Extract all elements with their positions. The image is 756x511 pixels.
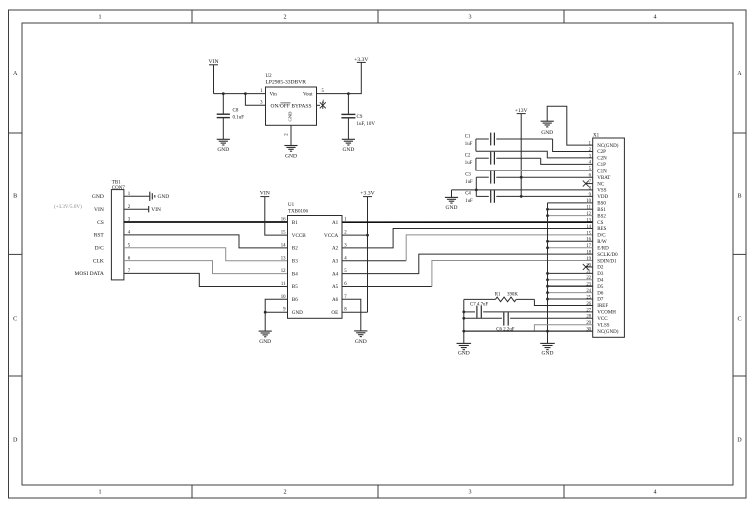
op-amp U2 LP2985-33DBVR regulator bbox=[266, 74, 317, 125]
wire X1 pin10 BS0 stub bbox=[548, 202, 593, 204]
svg-text:18: 18 bbox=[586, 251, 591, 256]
junction at C9 top bbox=[347, 92, 350, 95]
U1 pin number 12 bbox=[281, 269, 286, 274]
X1 pin number 13 bbox=[586, 218, 591, 223]
svg-text:VIN: VIN bbox=[94, 207, 104, 213]
node CS label (TB1 pin 3) bbox=[97, 220, 104, 226]
junction bus pin21 bbox=[546, 272, 549, 275]
svg-text:2: 2 bbox=[283, 15, 286, 21]
junction bus pin24 bbox=[546, 291, 549, 294]
node CLK label (TB1 pin 6) bbox=[93, 258, 104, 264]
svg-text:28: 28 bbox=[586, 315, 591, 320]
svg-text:RST: RST bbox=[94, 233, 105, 239]
ground under C8 bbox=[217, 139, 230, 153]
svg-text:D4: D4 bbox=[597, 278, 604, 283]
svg-text:NC: NC bbox=[597, 182, 605, 187]
TB1 pin number 7 bbox=[128, 269, 131, 274]
U1 pin number 8 bbox=[344, 308, 347, 313]
junction bus pin22 bbox=[546, 278, 549, 281]
wire U1 A6 to ground bbox=[342, 299, 361, 331]
svg-text:IREF: IREF bbox=[597, 304, 608, 309]
TB1 pin number 2 bbox=[128, 205, 131, 210]
power symbol VIN (regulator input) bbox=[208, 59, 218, 93]
U1 pin number 15 bbox=[281, 231, 286, 236]
U1 pin number 14 bbox=[281, 243, 286, 248]
X1 pin label IREF (pin 26) bbox=[597, 304, 608, 309]
X1 pin label VCC (pin 28) bbox=[597, 317, 608, 322]
svg-text:CS: CS bbox=[97, 220, 104, 226]
svg-text:D7: D7 bbox=[597, 298, 604, 303]
svg-text:2: 2 bbox=[283, 490, 286, 496]
svg-text:Vin: Vin bbox=[270, 91, 278, 97]
U1 pin number 1 bbox=[344, 218, 347, 223]
connector TB1 CON7 bbox=[111, 180, 125, 280]
svg-text:C2P: C2P bbox=[597, 150, 606, 155]
svg-text:BS0: BS0 bbox=[597, 202, 606, 207]
U1 right pin label A5 bbox=[332, 284, 339, 290]
X1 pin label VBAT (pin 6) bbox=[597, 176, 610, 181]
X1 pin label CS (pin 13) bbox=[597, 221, 603, 226]
TB1 pin number 1 bbox=[128, 192, 131, 197]
junction VCCA/+3.3V bbox=[366, 234, 369, 237]
svg-text:MOSI DATA: MOSI DATA bbox=[74, 271, 103, 277]
X1 pin number 30 bbox=[586, 328, 591, 333]
U1 left pin label B5 bbox=[292, 284, 298, 290]
U1 right pin label A4 bbox=[332, 271, 339, 277]
node VIN label (TB1 pin 2) bbox=[94, 207, 104, 213]
resistor R1 390K bbox=[464, 292, 535, 301]
X1 pin number 15 bbox=[586, 231, 591, 236]
svg-text:GND: GND bbox=[446, 205, 458, 211]
ground (rotated) at TB1 pin1 bbox=[150, 192, 169, 201]
X1 pin label VDD (pin 9) bbox=[597, 195, 608, 200]
U1 right pin label VCCA bbox=[324, 233, 338, 239]
svg-text:1: 1 bbox=[98, 15, 101, 21]
svg-text:C3: C3 bbox=[465, 172, 471, 177]
X1 pin number 19 bbox=[586, 257, 591, 262]
ground at bus bottom bbox=[540, 343, 555, 356]
svg-text:B: B bbox=[13, 194, 17, 200]
svg-text:VIN: VIN bbox=[208, 59, 218, 65]
U1 left pin label VCCB bbox=[292, 233, 306, 239]
junction bus pin12 bbox=[546, 214, 549, 217]
X1 pin label BS1 (pin 11) bbox=[597, 208, 606, 213]
X1 pin number 18 bbox=[586, 251, 591, 256]
wire left GND vertical (R1/C7/C6 return) bbox=[463, 300, 465, 344]
svg-text:1uF: 1uF bbox=[465, 142, 473, 147]
junction bus pin23 bbox=[546, 285, 549, 288]
wire GND bus vertical bbox=[547, 203, 549, 344]
U1 pin number 7 bbox=[344, 295, 347, 300]
svg-text:A2: A2 bbox=[332, 246, 339, 252]
wire U2 pin5 to +3.3V bbox=[317, 62, 362, 93]
X1 pin number 12 bbox=[586, 212, 591, 217]
X1 pin number 26 bbox=[586, 302, 591, 307]
wire C2 left to C1N row bbox=[475, 158, 477, 170]
capacitor C6 2.2uF (VCC) bbox=[464, 312, 593, 332]
junction at pin3 branch bbox=[244, 92, 247, 95]
svg-text:NC(GND): NC(GND) bbox=[597, 330, 618, 335]
svg-text:GND: GND bbox=[287, 111, 292, 122]
svg-text:D2: D2 bbox=[597, 266, 604, 271]
svg-text:GND: GND bbox=[355, 339, 367, 345]
svg-text:D/C: D/C bbox=[597, 234, 606, 239]
node D/C label (TB1 pin 5) bbox=[95, 246, 105, 252]
svg-text:D5: D5 bbox=[597, 285, 604, 290]
junction at C8 top bbox=[222, 92, 225, 95]
junction C7/GND vertical bbox=[462, 311, 465, 314]
X1 pin number 20 bbox=[586, 263, 591, 268]
svg-text:VLSS: VLSS bbox=[597, 323, 609, 328]
svg-text:BS1: BS1 bbox=[597, 208, 606, 213]
svg-text:+3.3V: +3.3V bbox=[360, 191, 375, 197]
svg-text:15: 15 bbox=[586, 231, 591, 236]
TB1 pin number 5 bbox=[128, 243, 131, 248]
wire D/C TB1 pin5 to U1 B3 bbox=[124, 248, 288, 261]
X1 pin label C1P (pin 4) bbox=[597, 163, 606, 168]
wire CLK TB1 pin6 to U1 B4 bbox=[124, 261, 288, 274]
X1 pin number 6 bbox=[589, 174, 592, 179]
X1 pin label D/C (pin 15) bbox=[597, 234, 606, 239]
U1 pin number 16 bbox=[281, 218, 286, 223]
capacitor C7 4.7uF (VCOMH) bbox=[464, 303, 593, 318]
wire to ground below U1 bbox=[264, 312, 266, 331]
X1 pin label NC(GND) (pin 30) bbox=[597, 330, 618, 335]
svg-text:D6: D6 bbox=[597, 291, 604, 296]
wire SDIN U1 A5 to X1 pin19 bbox=[342, 261, 593, 287]
X1 pin number 4 bbox=[589, 161, 592, 166]
U1 right pin label OE bbox=[331, 310, 338, 316]
X1 pin label BS2 (pin 12) bbox=[597, 214, 606, 219]
junction pin30 left bbox=[462, 330, 465, 333]
wire MOSI TB1 pin7 to U1 B5 bbox=[124, 273, 288, 286]
X1 pin label D4 (pin 22) bbox=[597, 278, 604, 283]
svg-text:16: 16 bbox=[281, 218, 286, 223]
wire NC(GND) row X1 pin30 bbox=[464, 330, 593, 332]
svg-text:16: 16 bbox=[586, 238, 591, 243]
U1 left pin label B4 bbox=[292, 271, 298, 277]
wire CS U1 A1 to X1 pin13 bbox=[342, 221, 593, 223]
TB1 pin number 4 bbox=[128, 231, 131, 236]
capacitor C9 1uF 10V bbox=[341, 94, 375, 140]
wire C2 right to X1 pin4 C1P bbox=[541, 158, 593, 164]
svg-text:SDIN/D1: SDIN/D1 bbox=[597, 259, 617, 264]
ground under U1 left bbox=[259, 331, 272, 345]
svg-text:10: 10 bbox=[586, 199, 591, 204]
X1 pin number 9 bbox=[589, 193, 592, 198]
wire U1 GND pin9 bbox=[265, 311, 287, 313]
svg-text:VCC: VCC bbox=[597, 317, 608, 322]
capacitor C1 1uF bbox=[465, 133, 553, 147]
svg-text:OE: OE bbox=[331, 310, 338, 316]
junction B6/GND bbox=[264, 311, 267, 314]
X1 pin number 7 bbox=[589, 180, 592, 185]
svg-text:GND: GND bbox=[158, 194, 170, 200]
wire TB1 pin2 to VIN bbox=[124, 208, 148, 210]
wire VIN to U2 pin1 bbox=[214, 93, 266, 95]
wire RST TB1 pin4 to U1 B2 bbox=[124, 235, 288, 248]
wire +13V to VBAT and VDD bbox=[520, 114, 522, 197]
U2 pin number 2 bbox=[284, 133, 289, 136]
ground under U1 A6 bbox=[354, 331, 367, 345]
net label (+3.3V/5.0V) bbox=[54, 203, 82, 210]
svg-text:B: B bbox=[737, 194, 741, 200]
X1 pin label NC(GND) (pin 1) bbox=[597, 144, 618, 149]
svg-text:C2: C2 bbox=[465, 154, 471, 159]
X1 pin number 22 bbox=[586, 276, 591, 281]
ground under C9 bbox=[342, 139, 355, 153]
U2 pin number 3 bbox=[260, 101, 263, 106]
wire SCLK U1 A4 to X1 pin18 bbox=[342, 254, 593, 274]
wire X1 pin23 stub to GND bus bbox=[548, 285, 593, 287]
X1 pin label D5 (pin 23) bbox=[597, 285, 604, 290]
svg-text:+13V: +13V bbox=[515, 108, 528, 114]
U1 pin number 9 bbox=[283, 308, 286, 313]
svg-text:3: 3 bbox=[468, 490, 471, 496]
wire X1 pin24 stub to GND bus bbox=[548, 292, 593, 294]
X1 pin label D7 (pin 25) bbox=[597, 298, 604, 303]
X1 pin number 2 bbox=[589, 148, 592, 153]
ground at VSS bbox=[445, 197, 458, 211]
wire R1 to X1 pin26 IREF bbox=[534, 299, 592, 305]
svg-text:GND: GND bbox=[458, 351, 470, 357]
X1 pin number 16 bbox=[586, 238, 591, 243]
svg-text:CS: CS bbox=[597, 221, 603, 226]
wire X1 pin22 stub to GND bus bbox=[548, 279, 593, 281]
U1 left pin label B6 bbox=[292, 297, 298, 303]
svg-text:VBAT: VBAT bbox=[597, 176, 610, 181]
no-connect X1 pin20 bbox=[583, 264, 593, 270]
power symbol VIN above U1 bbox=[260, 191, 270, 197]
capacitor C2 1uF bbox=[465, 152, 541, 166]
svg-text:R1: R1 bbox=[495, 292, 501, 297]
svg-text:B2: B2 bbox=[292, 246, 298, 252]
svg-text:390K: 390K bbox=[507, 292, 518, 297]
svg-text:E/RD: E/RD bbox=[597, 246, 609, 251]
svg-text:14: 14 bbox=[586, 225, 591, 230]
wire cap return vertical C3/C4 bbox=[475, 177, 477, 196]
junction bus pin16 bbox=[546, 240, 549, 243]
svg-text:22: 22 bbox=[586, 276, 591, 281]
ground at left return bbox=[457, 343, 472, 356]
X1 pin number 1 bbox=[589, 142, 592, 147]
wire VLSS X1 pin29 bbox=[534, 325, 592, 331]
power symbol +13V bbox=[515, 108, 528, 114]
svg-text:4: 4 bbox=[653, 15, 656, 21]
svg-text:14: 14 bbox=[281, 243, 286, 248]
junction VSS/cap return bbox=[475, 189, 478, 192]
svg-text:B4: B4 bbox=[292, 271, 298, 277]
svg-text:C1: C1 bbox=[465, 134, 471, 139]
svg-text:B3: B3 bbox=[292, 259, 298, 265]
svg-text:VSS: VSS bbox=[597, 189, 606, 194]
wire U1 B6 to GND pin bbox=[265, 299, 287, 312]
U2 pin number 5 bbox=[322, 89, 325, 94]
X1 pin number 24 bbox=[586, 289, 591, 294]
svg-text:GND: GND bbox=[342, 147, 354, 153]
node GND label (TB1 pin 1) bbox=[92, 194, 104, 200]
svg-text:GND: GND bbox=[259, 339, 271, 345]
power symbol +3.3V (regulator output) bbox=[354, 57, 369, 63]
connector X1 (30-pin OLED) bbox=[593, 133, 625, 337]
svg-text:C4: C4 bbox=[465, 192, 471, 197]
svg-text:C7 4.7uF: C7 4.7uF bbox=[470, 303, 488, 308]
svg-text:C: C bbox=[13, 317, 17, 323]
X1 pin label C2N (pin 3) bbox=[597, 157, 607, 162]
svg-text:B1: B1 bbox=[292, 220, 298, 226]
svg-text:24: 24 bbox=[586, 289, 591, 294]
X1 pin label D6 (pin 24) bbox=[597, 291, 604, 296]
svg-text:27: 27 bbox=[586, 308, 591, 313]
svg-text:D: D bbox=[13, 438, 18, 444]
power symbol +3.3V above U1 bbox=[360, 191, 375, 197]
svg-text:D3: D3 bbox=[597, 272, 604, 277]
U1 pin number 10 bbox=[281, 295, 286, 300]
svg-text:CON7: CON7 bbox=[112, 186, 126, 191]
svg-text:A5: A5 bbox=[332, 284, 339, 290]
capacitor C8 0.1uF bbox=[217, 94, 245, 140]
junction pin30 bus bbox=[546, 330, 549, 333]
X1 pin label D3 (pin 21) bbox=[597, 272, 604, 277]
wire X1 pin12 stub to GND bus bbox=[548, 215, 593, 217]
svg-text:GND: GND bbox=[217, 147, 229, 153]
X1 pin number 29 bbox=[586, 321, 591, 326]
junction bus pin17 bbox=[546, 246, 549, 249]
U2 pin number 4 bbox=[322, 100, 325, 105]
X1 pin number 5 bbox=[589, 167, 592, 172]
svg-text:ON/OFF BYPASS: ON/OFF BYPASS bbox=[271, 105, 312, 110]
wire X1 pin16 stub to GND bus bbox=[548, 240, 593, 242]
X1 pin label C2P (pin 2) bbox=[597, 150, 606, 155]
capacitor C4 1uF (VDD) bbox=[465, 190, 593, 204]
U1 left pin label GND bbox=[292, 310, 303, 316]
svg-text:GND: GND bbox=[541, 130, 553, 136]
svg-text:RES: RES bbox=[597, 227, 606, 232]
X1 pin number 28 bbox=[586, 315, 591, 320]
wire VSS row to X1 pin8 and ground bbox=[452, 190, 593, 198]
svg-text:A1: A1 bbox=[332, 220, 339, 226]
svg-text:1: 1 bbox=[98, 490, 101, 496]
svg-text:D: D bbox=[737, 438, 742, 444]
svg-text:VIN: VIN bbox=[260, 191, 270, 197]
X1 pin number 14 bbox=[586, 225, 591, 230]
svg-text:TB1: TB1 bbox=[112, 180, 121, 185]
capacitor C3 1uF (VBAT) bbox=[465, 171, 593, 185]
wire X1 pin17 stub to GND bus bbox=[548, 247, 593, 249]
U1 left pin label B1 bbox=[292, 220, 298, 226]
svg-text:LP2985-33DBVR: LP2985-33DBVR bbox=[266, 81, 307, 86]
svg-text:GND: GND bbox=[292, 310, 303, 316]
svg-text:25: 25 bbox=[586, 295, 591, 300]
X1 pin label R/W (pin 16) bbox=[597, 240, 607, 245]
svg-text:B6: B6 bbox=[292, 297, 298, 303]
svg-text:15: 15 bbox=[281, 231, 286, 236]
no-connect X on U2 pin4 bbox=[317, 102, 326, 109]
X1 pin number 25 bbox=[586, 295, 591, 300]
wire X1 pin25 stub to GND bus bbox=[548, 298, 593, 300]
svg-text:Vout: Vout bbox=[303, 91, 313, 97]
X1 pin number 27 bbox=[586, 308, 591, 313]
svg-text:3: 3 bbox=[468, 15, 471, 21]
svg-text:0.1uF: 0.1uF bbox=[233, 116, 245, 121]
U1 pin number 3 bbox=[344, 243, 347, 248]
U1 pin number 6 bbox=[344, 282, 347, 287]
U1 pin number 5 bbox=[344, 269, 347, 274]
wire X1 pin21 stub to GND bus bbox=[548, 272, 593, 274]
U1 pin number 4 bbox=[344, 256, 347, 261]
node RST label (TB1 pin 4) bbox=[94, 233, 105, 239]
wire C1 right to X1 pin2 C2P bbox=[553, 139, 593, 152]
svg-text:A6: A6 bbox=[332, 297, 339, 303]
svg-text:U1: U1 bbox=[288, 203, 295, 208]
svg-text:VCCA: VCCA bbox=[324, 233, 338, 239]
X1 pin number 3 bbox=[589, 154, 592, 159]
wire C1N row to X1 pin5 bbox=[476, 170, 593, 172]
svg-text:4: 4 bbox=[653, 490, 656, 496]
svg-text:+3.3V: +3.3V bbox=[354, 57, 369, 63]
wire U2 pin2 to ground bbox=[290, 125, 292, 145]
TB1 pin number 6 bbox=[128, 256, 131, 261]
X1 pin label E/RD (pin 17) bbox=[597, 246, 609, 251]
junction bus pin25 bbox=[546, 298, 549, 301]
U1 left pin label B3 bbox=[292, 259, 298, 265]
X1 pin number 23 bbox=[586, 283, 591, 288]
TB1 pin number 3 bbox=[128, 218, 131, 223]
svg-text:GND: GND bbox=[285, 153, 297, 159]
X1 pin label RES (pin 14) bbox=[597, 227, 606, 232]
wire X1 pin11 stub to GND bus bbox=[548, 208, 593, 210]
ground at X1 pin1 bbox=[541, 121, 554, 136]
svg-text:R/W: R/W bbox=[597, 240, 607, 245]
svg-text:A: A bbox=[737, 71, 742, 77]
svg-text:A3: A3 bbox=[332, 259, 339, 265]
svg-text:TXB0106: TXB0106 bbox=[288, 210, 309, 215]
wire +3.3V to U1 VCCA and OE bbox=[342, 197, 368, 313]
wire VIN to U1 VCCB bbox=[265, 197, 288, 236]
power symbol VIN at TB1 pin2 bbox=[149, 206, 161, 213]
X1 pin label NC (pin 7) bbox=[597, 182, 605, 187]
X1 pin number 17 bbox=[586, 244, 591, 249]
svg-text:11: 11 bbox=[281, 282, 286, 287]
svg-text:26: 26 bbox=[586, 302, 591, 307]
svg-text:(+3.3V/5.0V): (+3.3V/5.0V) bbox=[54, 203, 82, 210]
svg-text:12: 12 bbox=[586, 212, 591, 217]
svg-text:C1N: C1N bbox=[597, 169, 607, 174]
wire C1 left to C2N row bbox=[475, 139, 477, 151]
svg-text:C2N: C2N bbox=[597, 157, 607, 162]
svg-text:D/C: D/C bbox=[95, 246, 105, 252]
svg-text:U2: U2 bbox=[266, 74, 273, 79]
U1 pin number 11 bbox=[281, 282, 286, 287]
svg-text:GND: GND bbox=[542, 351, 554, 357]
U1 pin number 2 bbox=[344, 231, 347, 236]
svg-text:29: 29 bbox=[586, 321, 591, 326]
U1 right pin label A6 bbox=[332, 297, 339, 303]
U1 pin number 13 bbox=[281, 256, 286, 261]
wire branch to U2 pin3 bbox=[245, 94, 265, 106]
U1 right pin label A2 bbox=[332, 246, 339, 252]
svg-text:CLK: CLK bbox=[93, 258, 104, 264]
wire X1 pin1 to ground bbox=[547, 106, 593, 145]
svg-text:1uF: 1uF bbox=[465, 199, 473, 204]
wire D/C U1 A3 to X1 pin15 bbox=[342, 235, 593, 261]
svg-text:C9: C9 bbox=[357, 115, 363, 120]
U1 right pin label A1 bbox=[332, 220, 339, 226]
X1 pin label D2 (pin 20) bbox=[597, 266, 604, 271]
svg-text:13: 13 bbox=[281, 256, 286, 261]
svg-text:SCLK/D0: SCLK/D0 bbox=[597, 253, 618, 258]
junction +13V/VBAT bbox=[520, 176, 523, 179]
